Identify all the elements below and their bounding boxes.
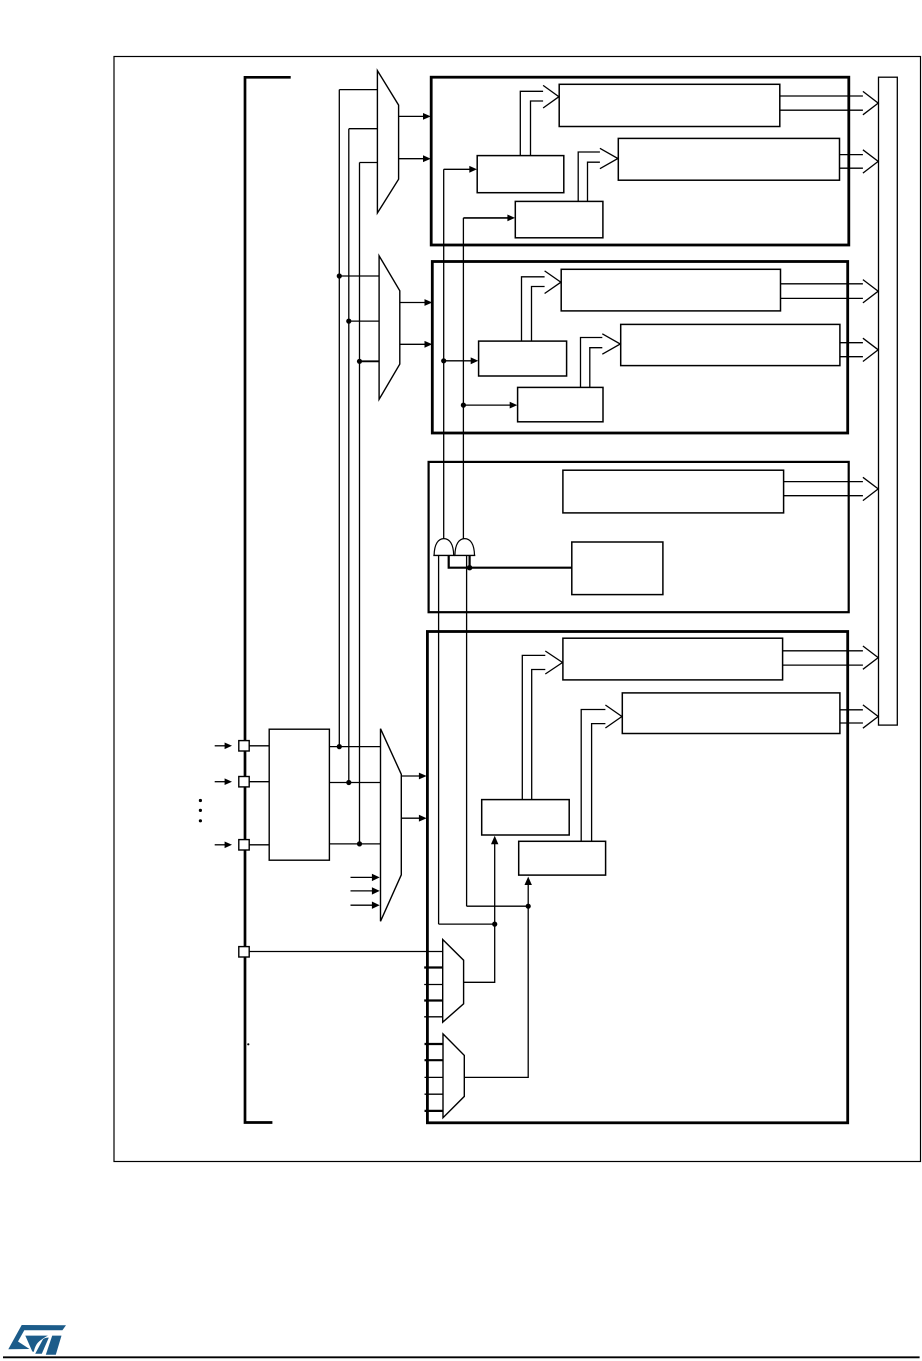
arrow into pad TIMx_CH4: [215, 842, 232, 849]
wire gate G1 output down: [438, 555, 440, 924]
wire N3 to mux U1: [360, 162, 378, 164]
block1 bent bus arrow prescaler to capture: [520, 85, 559, 155]
junction N1/mux U2: [337, 273, 342, 278]
wire mux U5 output: [464, 885, 528, 1078]
junction mux U5 riser/net B: [526, 904, 531, 909]
wire filter to mux U3 in2: [329, 782, 380, 784]
wire N2 to mux U2: [349, 320, 379, 322]
junction gate G2/encoder wire: [467, 565, 472, 570]
block4 controller box: [519, 841, 606, 875]
hollow arrow block4 top register to bus: [783, 646, 879, 669]
pad TIMx_ETR: [239, 947, 249, 957]
junction net A/block2: [441, 358, 446, 363]
arrow mux U3 out1 to block4: [401, 773, 426, 780]
block4 edge detector box: [482, 800, 570, 835]
footer rule: [3, 1356, 920, 1358]
wire gate G2 output stub: [469, 555, 471, 567]
mux U1: [377, 71, 398, 213]
input filter block: [269, 729, 329, 860]
hollow arrow block1 compare to bus: [840, 150, 879, 173]
stub arrow TRGI a into mux U3: [351, 874, 380, 881]
wire pad3 to filter: [249, 844, 269, 846]
stub arrow TRGI c into mux U3: [351, 902, 380, 909]
block1 capture register box: [559, 84, 780, 126]
block4 register box second: [622, 693, 840, 734]
block4 register box top: [563, 638, 783, 680]
junction N2/filter wire: [346, 780, 351, 785]
arrow mux U1 out2 to block1: [399, 155, 431, 162]
internal bus bracket: [245, 77, 291, 1122]
wire filter to mux U3 in3: [329, 843, 380, 845]
block4 trigger controller section: [427, 632, 847, 1123]
mux U3: [381, 729, 402, 922]
junction mux U4 riser/net A: [492, 922, 497, 927]
block3 register box: [563, 470, 784, 513]
figure frame: [114, 57, 921, 1162]
block3 encoder/trigger section: [429, 462, 849, 612]
block1 capture/compare channel 1: [431, 77, 849, 245]
junction N3/mux U2: [357, 359, 362, 364]
mux U4: [443, 940, 464, 1023]
wire/arrow net A into block2 prescaler: [444, 357, 479, 364]
hollow arrow block2 compare to bus: [840, 338, 878, 361]
block1 compare register box: [618, 138, 839, 180]
mux U4 input ticks: [424, 968, 443, 1017]
mux U5: [443, 1034, 464, 1118]
arrow mux U3 out2 to block4: [401, 815, 426, 822]
wire gate G2 output down: [466, 555, 468, 906]
arrowhead into edge detector box: [491, 836, 498, 844]
ST logo: [8, 1325, 66, 1355]
wire riser net N2: [348, 129, 350, 783]
wire N1 to mux U2: [339, 275, 379, 277]
hollow arrow block1 capture to bus: [780, 91, 878, 114]
arrow mux U1 out1 to block1: [399, 113, 431, 120]
block1 bent bus arrow counter to compare: [578, 148, 618, 201]
block2 counter box: [518, 387, 603, 421]
arrowhead into controller box: [525, 877, 532, 885]
wire net B vertical: [462, 218, 464, 539]
junction N2/mux U2: [346, 319, 351, 324]
junction net B/block2: [461, 403, 466, 408]
block2 capture register box: [561, 269, 780, 311]
wire/arrow into block1 counter: [463, 215, 515, 222]
junction N1/filter wire: [337, 744, 342, 749]
block2 capture/compare channel 2: [432, 262, 847, 434]
block1 counter box: [515, 201, 603, 237]
wire pad ETR to mux U4: [249, 951, 443, 953]
mux U5 input ticks: [425, 1044, 444, 1111]
block2 bent bus arrow prescaler to capture: [522, 271, 561, 341]
hollow arrow block3 register to bus: [784, 477, 879, 500]
block4 bent bus arrow edge detector to register: [522, 651, 562, 800]
wire net A vertical: [443, 169, 445, 539]
block2 prescaler box: [479, 341, 567, 376]
pad TIMx_CH1: [239, 741, 249, 751]
block4 bent bus arrow controller to register: [581, 705, 622, 841]
junction N3/filter wire: [357, 841, 362, 846]
ellipsis dots: [199, 799, 202, 823]
hollow arrow block2 capture to bus: [781, 280, 879, 303]
arrow into pad TIMx_CH1: [215, 743, 232, 750]
stray tick mark: [247, 1043, 249, 1045]
wire mux U4 output: [464, 844, 495, 983]
gate G2: [454, 539, 475, 556]
stub arrow TRGI b into mux U3: [351, 887, 380, 894]
wire N3 to mux U2: [360, 360, 380, 362]
mux U2: [379, 256, 400, 399]
wire pad1 to filter: [249, 745, 269, 747]
wire net A to riser: [439, 923, 495, 925]
wire/arrow into block1 prescaler: [444, 166, 477, 173]
wire riser net N3: [359, 163, 361, 844]
arrow mux U2 out1 to block2: [400, 299, 433, 306]
wire pad2 to filter: [249, 781, 269, 783]
wire N1 to mux U1: [339, 89, 377, 91]
pad TIMx_CH4: [239, 840, 249, 850]
wire net B to riser: [467, 905, 529, 907]
wire N2 to mux U1: [349, 128, 378, 130]
wire riser net N1: [338, 90, 340, 747]
block1 prescaler box: [477, 156, 564, 193]
arrow mux U2 out2 to block2: [400, 341, 433, 348]
block2 bent bus arrow counter to compare: [581, 334, 621, 388]
block2 compare register box: [621, 324, 840, 365]
block3 encoder interface box: [572, 542, 663, 595]
wire gate G1 output to encoder box: [449, 555, 572, 567]
wire/arrow net B into block2 counter: [463, 402, 517, 409]
gate G1: [433, 539, 454, 556]
wire filter to mux U3 in1: [329, 746, 380, 748]
pad TIMx_CH2: [239, 777, 249, 787]
arrow into pad TIMx_CH2: [215, 778, 232, 785]
hollow arrow block4 second register to bus: [840, 705, 878, 728]
output bus bar: [879, 77, 898, 725]
